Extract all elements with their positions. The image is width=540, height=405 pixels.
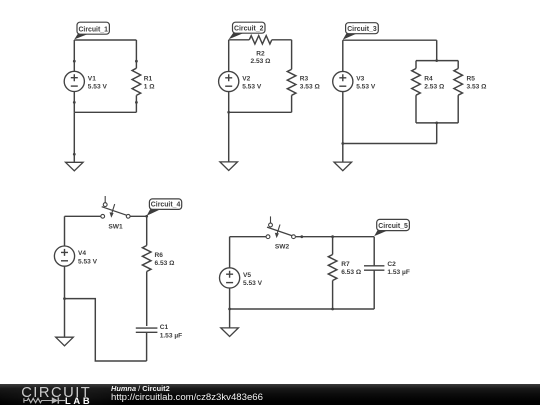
svg-text:R2: R2: [256, 50, 265, 57]
junction dot: [331, 235, 334, 238]
node Circuit_4 label: [147, 199, 182, 216]
wire: [296, 236, 374, 238]
wire: [436, 40, 438, 60]
resistor R1: [132, 61, 155, 102]
svg-text:Circuit_1: Circuit_1: [78, 27, 108, 34]
junction dot: [135, 60, 138, 63]
svg-text:5.53 V: 5.53 V: [242, 84, 262, 91]
junction dot: [73, 153, 76, 156]
resistor R3: [287, 69, 320, 95]
voltage source V3: [333, 40, 376, 143]
resistor R5: [454, 61, 487, 123]
switch SW2: [266, 216, 295, 250]
ground: [334, 162, 352, 171]
svg-text:5.53 V: 5.53 V: [356, 84, 376, 91]
node Circuit_3 label: [343, 23, 379, 40]
svg-text:R1: R1: [144, 75, 153, 82]
svg-text:V2: V2: [242, 75, 250, 82]
svg-text:3.53 Ω: 3.53 Ω: [467, 84, 488, 91]
wire: [230, 236, 267, 238]
svg-text:5.53 V: 5.53 V: [88, 84, 108, 91]
svg-text:Circuit_5: Circuit_5: [378, 223, 408, 230]
svg-text:R3: R3: [300, 75, 309, 82]
junction dot: [341, 142, 344, 145]
voltage source V5: [220, 237, 263, 309]
svg-text:V5: V5: [243, 272, 251, 279]
wire: [229, 111, 292, 113]
capacitor C2: [364, 237, 410, 309]
wire: [230, 308, 375, 310]
svg-text:R6: R6: [155, 252, 164, 259]
svg-text:SW2: SW2: [275, 243, 290, 250]
junction dot: [73, 101, 76, 104]
wire: [130, 215, 147, 217]
svg-text:Circuit_2: Circuit_2: [234, 26, 264, 33]
footer title text: [111, 385, 170, 392]
voltage source V4: [54, 216, 97, 298]
node Circuit_5 label: [374, 219, 409, 236]
resistor R7: [328, 237, 362, 309]
svg-text:1.53 µF: 1.53 µF: [160, 332, 183, 339]
wire: [343, 143, 437, 145]
svg-text:5.53 V: 5.53 V: [243, 280, 263, 287]
junction dot: [63, 297, 66, 300]
resistor R4: [412, 61, 445, 123]
svg-text:3.53 Ω: 3.53 Ω: [300, 84, 321, 91]
wire: [229, 39, 250, 41]
svg-text:R5: R5: [467, 75, 476, 82]
svg-text:6.53 Ω: 6.53 Ω: [341, 269, 362, 276]
svg-text:2.53 Ω: 2.53 Ω: [251, 58, 272, 65]
svg-text:LAB: LAB: [65, 395, 92, 405]
svg-text:2.53 Ω: 2.53 Ω: [424, 84, 445, 91]
svg-text:C2: C2: [387, 261, 396, 268]
wire: [291, 95, 293, 112]
svg-text:6.53 Ω: 6.53 Ω: [155, 260, 176, 267]
wire: [73, 40, 75, 61]
wire: [272, 39, 292, 41]
switch SW1: [101, 196, 130, 230]
CircuitLab logo: [0, 384, 270, 405]
wire: [73, 102, 75, 112]
wire: [135, 102, 137, 112]
wire: [146, 280, 148, 326]
svg-text:V4: V4: [78, 250, 86, 257]
wire: [436, 123, 438, 144]
junction dot: [435, 59, 438, 62]
wire: [73, 112, 75, 154]
ground: [221, 328, 239, 337]
svg-text:V1: V1: [88, 75, 96, 82]
svg-text:1.53 µF: 1.53 µF: [387, 269, 410, 276]
junction dot: [73, 60, 76, 63]
junction dot: [300, 235, 303, 238]
ground: [66, 162, 84, 171]
footer url text: [111, 393, 263, 403]
wire: [291, 40, 293, 70]
junction dot: [145, 215, 148, 218]
svg-text:R7: R7: [341, 261, 350, 268]
wire: [135, 40, 137, 61]
voltage source V2: [219, 40, 262, 113]
wire: [74, 39, 136, 41]
resistor R6: [142, 216, 175, 280]
svg-text:SW1: SW1: [108, 223, 123, 230]
svg-text:1 Ω: 1 Ω: [144, 84, 155, 91]
wire: [228, 112, 230, 162]
svg-text:Circuit_3: Circuit_3: [347, 26, 377, 33]
junction dot: [228, 308, 231, 311]
wire: [65, 215, 101, 217]
wire: [416, 122, 458, 124]
svg-text:R4: R4: [424, 75, 433, 82]
node Circuit_2 label: [229, 22, 265, 39]
wire: [65, 299, 147, 361]
capacitor C1: [136, 324, 182, 361]
voltage source V1: [64, 61, 107, 102]
wire: [342, 144, 344, 163]
footer bar: [0, 384, 540, 405]
wire: [416, 60, 458, 62]
svg-text:V3: V3: [356, 75, 364, 82]
junction dot: [435, 122, 438, 125]
node Circuit_1 label: [74, 22, 109, 39]
junction dot: [135, 101, 138, 104]
wire: [229, 309, 231, 328]
ground: [220, 162, 238, 171]
ground: [56, 337, 74, 346]
svg-text:Circuit_4: Circuit_4: [151, 202, 181, 209]
wire: [73, 154, 75, 162]
wire: [64, 299, 66, 338]
svg-text:C1: C1: [160, 324, 169, 331]
wire: [343, 39, 437, 41]
junction dot: [331, 308, 334, 311]
resistor R2: [249, 36, 271, 65]
wire: [74, 111, 136, 113]
svg-text:5.53 V: 5.53 V: [78, 258, 98, 265]
junction dot: [227, 111, 230, 114]
